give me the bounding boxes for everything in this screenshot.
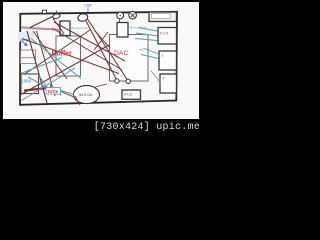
wire maroon mid P1 — [33, 31, 67, 79]
oscillator ellipse 34.0.04 — [74, 86, 100, 104]
wire blue arrowhead (left) — [22, 41, 28, 46]
wire maroon cable b (C to P2) — [88, 19, 128, 80]
buffer block U1 — [56, 36, 81, 76]
wire teal long T5 — [31, 39, 81, 79]
svg-text:USB: USB — [84, 4, 92, 8]
tab on top edge — [43, 10, 47, 13]
wire maroon cable a (C to P1) — [86, 20, 117, 80]
block R2 — [159, 51, 177, 70]
wire maroon steep S1 — [27, 31, 47, 103]
jack circle E1 — [117, 12, 124, 19]
tick above TaTle — [50, 84, 52, 88]
svg-text:1000: 1000 — [22, 79, 32, 84]
block L2 (left wall) — [21, 74, 39, 94]
wire maroon scribble near DAC corner — [94, 31, 110, 50]
label Buffer (red) — [52, 51, 73, 58]
wire teal descending T3 — [37, 73, 49, 90]
highlight pink wire (left) — [21, 27, 59, 29]
teal dash inside DAC — [139, 49, 143, 52]
wire maroon shallow B1 — [52, 28, 122, 70]
label 1000 (blue) — [22, 79, 32, 84]
connector J4 top-right — [149, 12, 177, 22]
wire teal ascending T2 — [21, 58, 63, 74]
svg-text:DAC: DAC — [114, 50, 128, 57]
wire red below oscillator — [75, 84, 107, 105]
block R3 — [160, 74, 177, 93]
node COMP (blue patch) — [18, 32, 34, 42]
svg-text:34.0.04: 34.0.04 — [79, 92, 93, 97]
svg-text:TaTle: TaTle — [47, 89, 58, 94]
svg-text:Bluetooth/Au: Bluetooth/Au — [71, 26, 89, 30]
label Bluetooth (blue, right of F) — [71, 26, 89, 30]
block G (mid module) — [117, 19, 128, 37]
board frame — [20, 12, 177, 105]
DAC block U2 — [110, 35, 149, 82]
wire teal bottom T4a — [28, 77, 61, 95]
svg-text:Buffer: Buffer — [52, 51, 73, 58]
wire teal fan to R1 — [135, 28, 158, 41]
label (blue, right of G) — [130, 26, 148, 30]
wire maroon shallow B2 — [54, 22, 125, 61]
pin circle P1 (DAC bottom) — [115, 79, 119, 83]
wire maroon ascending U1 — [24, 30, 90, 75]
TaTle box (blue outline, red text) — [46, 88, 61, 95]
jack ellipse D — [52, 11, 60, 19]
jack ellipse C — [77, 13, 89, 23]
node label USB (blue, above frame) — [84, 4, 92, 13]
wire maroon ascending U2 — [21, 45, 109, 95]
wire maroon thick horizontal — [24, 88, 48, 91]
wire teal TaTle to oscillator — [61, 91, 74, 95]
wire from jack D (down-left) — [30, 17, 64, 34]
block G+13 (bottom) — [122, 90, 141, 99]
wire maroon long gentle C1 — [22, 39, 119, 74]
label DAC (red) — [114, 50, 128, 57]
svg-text:a: a — [162, 54, 164, 58]
wire teal fan to R2 — [141, 48, 159, 59]
block F (left module) — [60, 21, 70, 36]
wire teal to R3 — [151, 71, 161, 82]
jack circle E2 — [129, 11, 137, 19]
block L1 (left wall, divided) — [21, 50, 36, 64]
pin circle P2 (DAC bottom) — [120, 74, 130, 84]
block R1 (5VR regulator) — [158, 28, 177, 45]
svg-text:G+13: G+13 — [124, 93, 132, 97]
svg-text:5 V R: 5 V R — [160, 32, 169, 36]
wire teal ascending T1 — [22, 68, 76, 101]
wire maroon steep S2 — [37, 31, 56, 96]
wire red TaTle to oscillator — [61, 92, 74, 98]
